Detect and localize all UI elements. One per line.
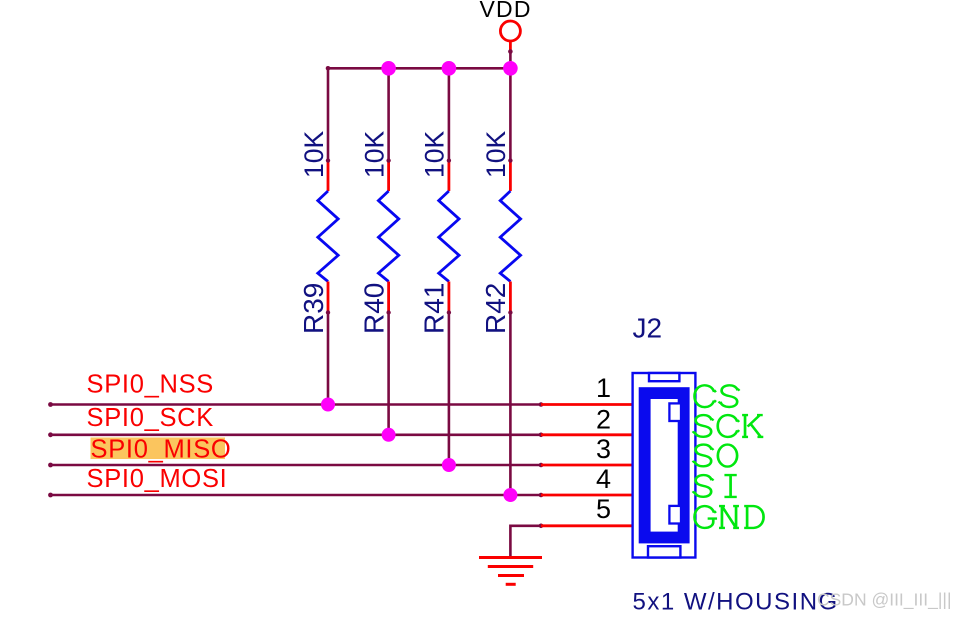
junction bus at VDD/R42	[503, 61, 518, 76]
connector J2 bottom notch	[648, 546, 680, 557]
svg-text:2: 2	[596, 405, 611, 435]
connector J2 key top	[669, 403, 681, 421]
wire bus to R40	[387, 68, 390, 160]
junction R40/SPI0_SCK	[382, 428, 396, 442]
svg-text:1: 1	[596, 373, 611, 403]
junction R41/SPI0_MISO	[442, 458, 456, 472]
wire SPI0_SCK	[51, 433, 542, 436]
junction bus at R41	[442, 61, 457, 76]
connector J2 housing cavity	[651, 399, 678, 532]
connector J2 pin 3	[541, 464, 633, 467]
pin name CS	[695, 385, 740, 407]
resistor R40	[378, 158, 398, 314]
connector J2 top notch	[649, 373, 679, 381]
wire R40 to SPI0_SCK line	[387, 313, 390, 435]
junction R42/SPI0_MOSI	[503, 488, 517, 502]
pin name SI	[693, 475, 737, 497]
svg-text:5: 5	[596, 494, 611, 524]
wire R41 to SPI0_MISO line	[448, 313, 451, 466]
svg-text:4: 4	[596, 464, 611, 494]
wire R42 to SPI0_MOSI line	[509, 313, 512, 496]
svg-text:SPI0_MISO: SPI0_MISO	[91, 436, 232, 464]
connector J2 pin 1	[541, 403, 633, 406]
svg-text:R40: R40	[358, 283, 389, 334]
wire pin5 to ground	[510, 526, 541, 559]
svg-text:10K: 10K	[481, 131, 511, 178]
svg-text:R39: R39	[298, 283, 329, 334]
svg-text:SPI0_MOSI: SPI0_MOSI	[87, 465, 228, 493]
wire VDD to bus	[509, 51, 512, 69]
pin name SCK	[693, 415, 764, 437]
connector J2 pin 4	[541, 494, 633, 497]
wire bus to R41	[448, 68, 451, 160]
resistor R41	[439, 158, 459, 314]
svg-text:VDD: VDD	[480, 0, 532, 22]
junction bus at R40	[381, 61, 396, 76]
power symbol VDD circle	[500, 21, 520, 41]
svg-text:SPI0_SCK: SPI0_SCK	[87, 404, 215, 432]
wire SPI0_MISO	[51, 464, 542, 467]
svg-text:R41: R41	[419, 283, 450, 334]
connector J2 key bottom	[669, 506, 681, 524]
svg-text:R42: R42	[480, 283, 511, 334]
connector J2 outer body	[633, 373, 696, 558]
resistor R39	[318, 158, 338, 314]
svg-text:SPI0_NSS: SPI0_NSS	[87, 371, 215, 399]
svg-text:3: 3	[596, 434, 611, 464]
pin name SO	[693, 445, 738, 467]
connector J2 inner housing	[639, 387, 690, 543]
svg-text:10K: 10K	[299, 131, 329, 178]
svg-text:5x1 W/HOUSING: 5x1 W/HOUSING	[633, 589, 839, 616]
wire bus to R42	[509, 68, 512, 160]
pin name GND	[695, 506, 764, 528]
wire R39 to SPI0_NSS line	[327, 313, 330, 405]
resistor R42	[500, 158, 520, 314]
svg-text:10K: 10K	[359, 131, 389, 178]
highlight behind SPI0_MISO	[91, 438, 226, 460]
connector J2 pin 2	[541, 433, 633, 436]
svg-text:CSDN @III_III_|||: CSDN @III_III_|||	[817, 590, 952, 611]
svg-text:J2: J2	[633, 312, 663, 343]
wire top bus horizontal	[326, 66, 331, 71]
wire SPI0_NSS	[51, 403, 542, 406]
power symbol VDD pin stub	[509, 41, 512, 52]
connector J2 pin 5	[541, 524, 633, 527]
ground symbol	[479, 558, 542, 585]
junction R39/SPI0_NSS	[321, 398, 335, 412]
wire bus left leg down to R39	[327, 67, 330, 161]
svg-text:10K: 10K	[420, 131, 450, 178]
wire SPI0_MOSI	[51, 494, 542, 497]
